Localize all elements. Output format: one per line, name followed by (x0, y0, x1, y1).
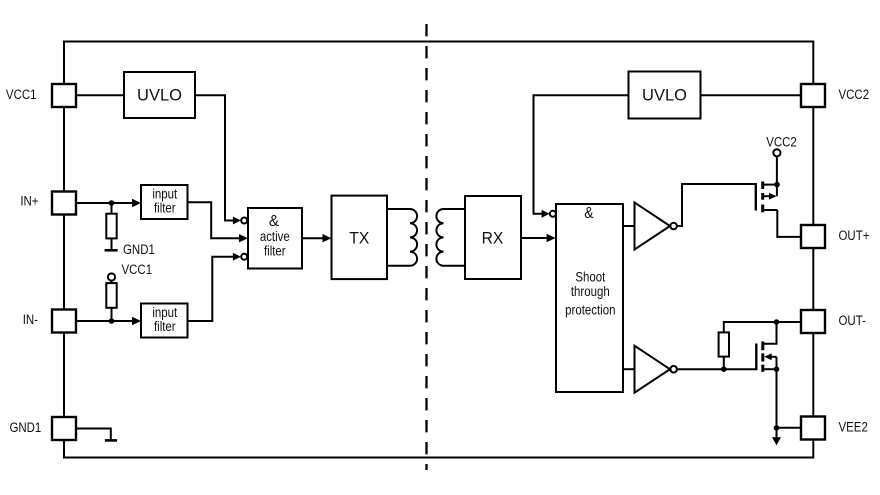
arrowhead into active filter top input (233, 217, 241, 225)
resistor R1 (IN+ pulldown) (106, 203, 116, 249)
svg-text:OUT+: OUT+ (839, 228, 870, 243)
svg-text:VCC2: VCC2 (839, 87, 870, 102)
junction node Q2 drain / OUT- (774, 319, 780, 325)
wire UVLO2 to VCC2 pad (701, 94, 802, 96)
svg-text:protection: protection (565, 302, 615, 317)
lower driver inverter (635, 346, 677, 393)
svg-text:GND1: GND1 (9, 420, 41, 435)
svg-text:VEE2: VEE2 (839, 420, 868, 435)
isolation barrier dashed line (425, 24, 427, 470)
arrowhead shoot-through top input (542, 210, 550, 218)
node VCC1 terminal circle (108, 273, 115, 280)
upper driver inverter (635, 203, 677, 250)
svg-text:&: & (584, 205, 593, 222)
svg-text:filter: filter (154, 319, 176, 334)
pin pad IN- (52, 310, 76, 333)
junction node VEE2 wire (774, 425, 780, 431)
block UVLO (output side) U2 (629, 72, 701, 119)
outer border of isolator IC (64, 42, 813, 458)
pin pad OUT+ (801, 225, 825, 248)
pin pad GND1 (52, 417, 76, 440)
pin label VEE2 (839, 420, 868, 435)
wire junction to OUT- pad (777, 321, 802, 323)
transistor Q2 (low-side MOSFET) (756, 322, 776, 372)
arrowhead into TX (323, 234, 332, 242)
node label VCC1 (122, 262, 153, 277)
block TX (332, 196, 388, 280)
svg-text:IN+: IN+ (20, 194, 38, 209)
wire IN+ pad to input filter (76, 202, 133, 204)
junction node on Q2 gate wire (resistor tap) (721, 366, 727, 372)
inverting bubble active filter bottom input (241, 254, 247, 260)
block input filter (IN+) (141, 185, 188, 219)
pin pad VCC2 (801, 84, 825, 107)
ground symbol GND1 (under R1) (105, 249, 118, 252)
arrowhead active filter middle input (239, 234, 248, 242)
svg-text:VCC1: VCC1 (122, 262, 153, 277)
wire shoot-through to lower driver inverter (623, 368, 635, 370)
svg-text:filter: filter (264, 244, 286, 259)
arrowhead active filter bottom input (233, 253, 241, 261)
svg-text:IN-: IN- (23, 312, 38, 327)
transformer primary winding (387, 209, 417, 266)
block UVLO (input side) U1 (124, 72, 195, 118)
wire UVLO output to active filter top input (195, 95, 238, 220)
svg-text:&: & (269, 213, 280, 230)
wire lower input filter to active filter bottom input (188, 257, 238, 321)
svg-text:OUT-: OUT- (839, 313, 866, 328)
wire Q1 source to OUT+ pad (777, 210, 801, 237)
node label GND1 (123, 242, 155, 257)
arrowhead into lower input filter (132, 317, 141, 325)
transistor Q1 (high-side MOSFET) (756, 182, 778, 213)
svg-text:VCC2: VCC2 (766, 134, 797, 149)
svg-text:VCC1: VCC1 (6, 87, 37, 102)
pin pad OUT- (801, 310, 825, 333)
block AND active filter (248, 208, 302, 269)
wire lower inverter to Q2 gate (677, 368, 756, 370)
block shoot through protection (556, 204, 623, 392)
wire Q2 source down to VEE2 (776, 369, 778, 428)
junction node Q2 source (774, 366, 780, 372)
svg-text:GND1: GND1 (123, 242, 155, 257)
svg-text:UVLO: UVLO (137, 87, 182, 105)
wire UVLO2 output to shoot-through AND gate top input (534, 95, 629, 214)
junction node on IN- wire (109, 318, 115, 324)
block RX (465, 196, 521, 279)
pin label IN+ (20, 194, 38, 209)
svg-text:filter: filter (154, 200, 176, 215)
junction node on IN+ wire (109, 200, 115, 206)
svg-text:active: active (260, 229, 290, 244)
node VCC2 terminal circle (773, 149, 780, 156)
resistor R2 (IN- pullup) (106, 281, 116, 321)
node label VCC2 (above Q1) (766, 134, 797, 149)
pin label GND1 (9, 420, 41, 435)
inverting bubble active filter top input (241, 218, 247, 224)
resistor R3 (gate-drain) (719, 322, 777, 369)
wire junction to VEE2 pad (777, 427, 802, 429)
pin pad VEE2 (801, 417, 825, 440)
transformer secondary winding (436, 209, 465, 266)
svg-text:Shoot: Shoot (575, 270, 605, 285)
block input filter (IN-) (141, 304, 188, 338)
junction node Q1 drain (774, 182, 780, 188)
pin label OUT- (839, 313, 866, 328)
wire upper inverter to Q1 gate (677, 184, 755, 226)
pin label VCC1 (6, 87, 37, 102)
wire GND1 pad to ground symbol (76, 429, 111, 440)
wire VCC1 pad to UVLO (76, 94, 124, 96)
pin label OUT+ (839, 228, 870, 243)
arrow to negative rail below VEE2 junction (772, 428, 781, 446)
pin label IN- (23, 312, 38, 327)
svg-text:TX: TX (349, 229, 369, 247)
inverting bubble shoot-through top input (550, 211, 556, 217)
arrowhead into shoot-through AND gate (547, 234, 556, 242)
pin pad VCC1 (52, 84, 76, 107)
wire shoot-through to upper driver inverter (623, 225, 635, 227)
svg-text:UVLO: UVLO (642, 87, 687, 105)
wire RX to shoot-through AND gate (521, 237, 547, 239)
wire VCC2 circle down to Q1 drain (776, 156, 778, 196)
arrowhead into upper input filter (132, 199, 141, 207)
wire IN- pad to input filter (76, 320, 133, 322)
svg-text:through: through (571, 284, 610, 299)
pin pad IN+ (52, 192, 76, 215)
wire active filter to TX (302, 237, 323, 239)
pin label VCC2 (839, 87, 870, 102)
svg-text:RX: RX (482, 229, 504, 247)
wire upper input filter to active filter middle input (188, 202, 240, 238)
ground symbol (GND1 pad) (105, 439, 117, 442)
